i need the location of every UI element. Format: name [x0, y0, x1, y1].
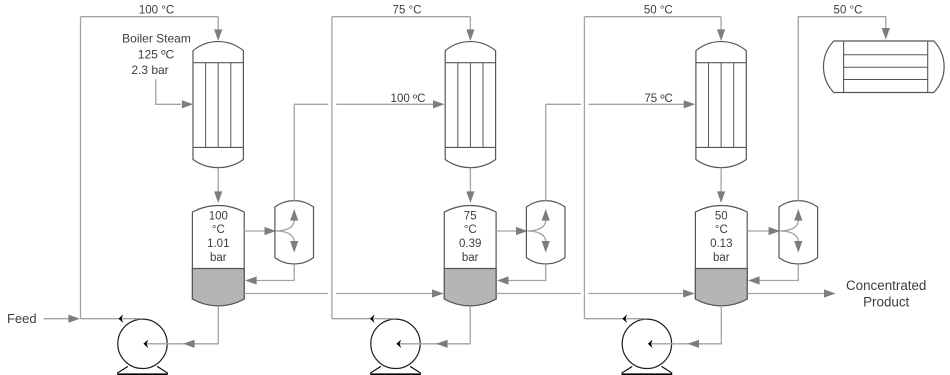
V3 liquid holdup: [695, 269, 747, 306]
arrow into exchanger E2 top: [466, 29, 474, 41]
wire: feed line: [43, 318, 69, 320]
wire: boiler steam inlet elbow: [156, 79, 181, 104]
wire: V2 bottoms suction to pump P2: [397, 306, 471, 344]
black arrow into pump P2 center: [397, 340, 402, 349]
S1 internal split curve down: [276, 231, 294, 242]
S3 liquid arrow down: [794, 241, 802, 253]
recirculation pump P2: [371, 319, 420, 368]
E1 tube 2: [217, 63, 219, 148]
wire: E2 outlet downcomer: [469, 168, 471, 193]
arrow into separator S2: [516, 227, 528, 235]
svg-text:Concentrated: Concentrated: [846, 278, 926, 293]
condenser tube 2: [844, 66, 928, 68]
S1 liquid arrow down: [290, 241, 298, 253]
S2 vapour arrow up: [542, 209, 550, 221]
wire: V3 product line: [747, 293, 824, 295]
E1 bottom tube sheet: [193, 146, 243, 148]
svg-text:100: 100: [209, 210, 228, 222]
svg-text:1.01: 1.01: [207, 238, 229, 250]
wire: effect 3 top feed header: [584, 16, 721, 18]
arrow into vessel V3 top: [717, 191, 725, 203]
svg-text:75: 75: [464, 210, 477, 222]
wire: S2 vapour header to E3 (gap at riser 3): [546, 103, 581, 105]
arrow into vessel V1 top: [214, 191, 222, 203]
S2 internal split curve down: [527, 231, 545, 242]
entrainment separator S1: [275, 201, 314, 264]
entrainment separator S3: [779, 201, 818, 264]
E3 bottom tube sheet: [696, 146, 746, 148]
wire: effect 2 drop into exchanger: [469, 17, 471, 31]
svg-text:0.39: 0.39: [459, 238, 481, 250]
wire: effect 1 drop into exchanger: [217, 17, 219, 31]
arrow feed into junction: [68, 315, 80, 323]
svg-text:50 °C: 50 °C: [834, 5, 863, 17]
evaporator heat exchanger E1: [193, 42, 243, 168]
flash vessel V1: [192, 205, 244, 305]
arrow into separator S3: [769, 227, 781, 235]
arrow into exchanger E3 top: [717, 29, 725, 41]
E1 top tube sheet: [193, 62, 243, 64]
svg-text:bar: bar: [713, 252, 730, 264]
black arrow on discharge line: [622, 314, 627, 323]
arrow on suction line: [183, 340, 195, 348]
svg-text:Feed: Feed: [7, 311, 37, 326]
svg-text:100 °C: 100 °C: [139, 5, 174, 17]
S2 internal split curve up: [527, 221, 545, 232]
arrow liquid return into V1: [245, 276, 257, 284]
arrow liquid return into V2: [497, 276, 509, 284]
svg-text:125 ºC: 125 ºC: [138, 47, 175, 61]
svg-text:100 ºC: 100 ºC: [391, 93, 426, 105]
pump P3 base: [622, 366, 673, 373]
E3 tube 1: [708, 63, 710, 148]
E2 top tube sheet: [445, 62, 495, 64]
black arrow into pump P1 center: [144, 340, 149, 349]
black arrow into pump P3 center: [648, 340, 653, 349]
S3 vapour arrow up: [794, 209, 802, 221]
pump P1 base: [117, 366, 168, 373]
wire: S3 vapour riser to condenser: [798, 17, 886, 201]
black arrow on discharge line: [119, 314, 124, 323]
flash vessel V2: [444, 205, 496, 305]
wire: V1 bottoms suction to pump P1: [144, 306, 219, 344]
E1 tube 1: [205, 63, 207, 148]
recirculation pump P3: [622, 319, 671, 368]
arrow liquor into V2: [432, 289, 444, 297]
svg-text:75 ºC: 75 ºC: [644, 93, 673, 105]
arrow vapour into E3 shell: [684, 100, 696, 108]
condenser (horizontal shell-and-tube): [823, 41, 944, 93]
S2 liquid arrow down: [542, 241, 550, 253]
condenser left tube sheet: [843, 41, 845, 93]
arrow liquid return into V3: [748, 276, 760, 284]
svg-text:Boiler Steam: Boiler Steam: [122, 32, 191, 46]
svg-text:bar: bar: [462, 252, 479, 264]
V2 liquid holdup: [444, 269, 496, 306]
svg-text:50 °C: 50 °C: [644, 5, 673, 17]
svg-text:°C: °C: [212, 224, 225, 236]
wire: S3 liquid return elbow: [755, 264, 798, 281]
arrow concentrated product: [824, 289, 836, 297]
wire: S1 vapour riser: [293, 104, 295, 201]
wire: V3 vapour line to separator S3: [747, 230, 777, 232]
svg-text:2.3 bar: 2.3 bar: [131, 63, 168, 77]
wire: effect 3 drop into exchanger: [720, 17, 722, 31]
wire: S1 vapour header to E2 (gap at riser 2): [294, 103, 328, 105]
E3 top tube sheet: [696, 62, 746, 64]
wire: pump P1 discharge to riser: [81, 318, 143, 320]
E3 tube 3: [733, 63, 735, 148]
svg-text:°C: °C: [464, 224, 477, 236]
wire: V3 bottoms suction to pump P3: [648, 306, 721, 344]
evaporator heat exchanger E3: [696, 42, 746, 168]
E3 tube 2: [720, 63, 722, 148]
S3 internal split curve down: [780, 231, 798, 242]
arrow into vessel V2 top: [466, 191, 474, 203]
wire: effect 3 recirculation riser: [583, 17, 585, 319]
arrow on suction line: [687, 340, 699, 348]
svg-text:50: 50: [715, 210, 728, 222]
wire: effect 1 recirculation riser: [80, 17, 82, 319]
wire: S2 liquid return elbow: [504, 264, 546, 281]
E2 tube 2: [469, 63, 471, 148]
wire: effect 2 recirculation riser: [331, 17, 333, 319]
arrow into exchanger E1 top: [214, 29, 222, 41]
arrow vapour into condenser: [882, 28, 890, 40]
svg-text:°C: °C: [715, 224, 728, 236]
wire: V2 to V3 liquor transfer (gap at riser 3): [496, 293, 581, 295]
wire: E1 outlet downcomer: [217, 168, 219, 193]
condenser tube 1: [844, 54, 928, 56]
E2 tube 1: [457, 63, 459, 148]
wire: V1 vapour line to separator S1: [244, 230, 273, 232]
evaporator heat exchanger E2: [445, 42, 495, 168]
recirculation pump P1: [118, 319, 167, 368]
arrow steam into E1 shell: [182, 100, 194, 108]
svg-text:bar: bar: [210, 252, 227, 264]
wire: S2 vapour riser: [545, 104, 547, 201]
svg-text:Product: Product: [863, 294, 909, 309]
arrow vapour into E2 shell: [433, 100, 445, 108]
arrow into separator S1: [265, 227, 277, 235]
S3 internal split curve up: [780, 221, 798, 232]
E2 bottom tube sheet: [445, 146, 495, 148]
wire: S1 liquid return elbow: [252, 264, 294, 281]
svg-text:0.13: 0.13: [710, 238, 732, 250]
condenser tube 3: [844, 79, 928, 81]
wire: effect 1 top feed header: [81, 16, 219, 18]
wire: V2 vapour line to separator S2: [496, 230, 524, 232]
black arrow on discharge line: [370, 314, 375, 323]
pump P2 base: [370, 366, 421, 373]
E1 tube 3: [230, 63, 232, 148]
V1 liquid holdup: [192, 269, 244, 306]
wire: pump P3 discharge to riser: [584, 318, 647, 320]
arrow on suction line: [436, 340, 448, 348]
wire: E3 outlet downcomer: [720, 168, 722, 193]
arrow liquor into V3: [683, 289, 695, 297]
S1 internal split curve up: [276, 221, 294, 232]
flash vessel V3: [695, 205, 747, 305]
E2 tube 3: [482, 63, 484, 148]
entrainment separator S2: [526, 201, 565, 264]
condenser right tube sheet: [927, 41, 929, 93]
svg-text:75 °C: 75 °C: [393, 5, 422, 17]
wire: effect 2 top feed header: [332, 16, 471, 18]
wire: V1 to V2 liquor transfer (gap at riser 2): [244, 293, 328, 295]
S1 vapour arrow up: [290, 209, 298, 221]
wire: pump P2 discharge to riser: [332, 318, 396, 320]
